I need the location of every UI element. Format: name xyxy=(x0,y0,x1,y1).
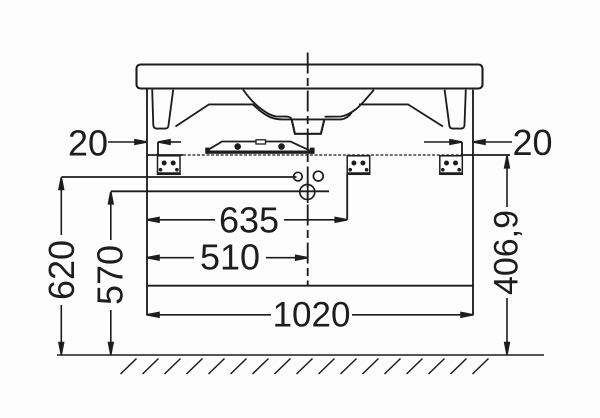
svg-text:570: 570 xyxy=(90,245,131,305)
svg-text:635: 635 xyxy=(219,200,279,241)
svg-text:1020: 1020 xyxy=(273,296,351,335)
svg-text:620: 620 xyxy=(41,240,82,300)
svg-text:20: 20 xyxy=(512,122,552,163)
svg-text:20: 20 xyxy=(68,123,108,164)
svg-text:406,9: 406,9 xyxy=(488,210,526,295)
svg-text:510: 510 xyxy=(200,237,260,278)
